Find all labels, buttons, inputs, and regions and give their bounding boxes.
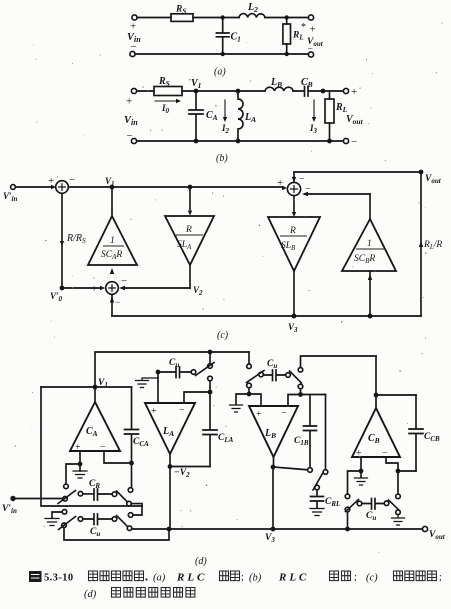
switch contact sc1 lower <box>208 376 213 381</box>
resistor RL vertical (a) <box>286 18 288 55</box>
wire V2 corner from triangle2 apex <box>189 265 191 288</box>
switch pole CRL <box>315 485 320 490</box>
switch contact sc2 lower-left <box>247 383 252 388</box>
terminal output top (a) <box>308 15 313 20</box>
switch pole sc2 left <box>259 372 264 377</box>
svg-text:;: ; <box>354 572 357 583</box>
svg-text:R: R <box>289 226 296 236</box>
svg-text:−: − <box>308 44 314 55</box>
svg-text:(b): (b) <box>216 153 228 164</box>
wire bottom rail a <box>135 53 309 55</box>
wire V'in to summer1 <box>16 186 53 188</box>
svg-text:(a): (a) <box>153 573 166 584</box>
op-amp LB <box>249 406 298 457</box>
op-amp CB <box>352 408 400 457</box>
svg-text:+: + <box>75 442 81 453</box>
node bottom RL (a) <box>285 52 289 56</box>
caption cjk signal flow graph <box>394 571 403 581</box>
switch contact sc4 upper-left <box>345 494 350 499</box>
svg-text:+: + <box>277 177 283 189</box>
resistor Rs (b) <box>154 87 182 96</box>
capacitor Cu top-left <box>158 367 191 378</box>
wire LB minus bar <box>288 395 326 407</box>
switch contact sc4 lower-right <box>396 510 401 515</box>
node -V2 <box>168 464 173 469</box>
switch arm row1 left <box>58 491 76 504</box>
switch arm sc2 right <box>290 371 302 383</box>
wire V1 rail <box>68 186 283 188</box>
terminal output bottom (a) <box>308 52 313 57</box>
svg-text:+: + <box>356 448 362 459</box>
svg-text:1: 1 <box>110 236 115 246</box>
arrow V3 into block4 <box>369 271 371 316</box>
switch contact row1 cap-left <box>78 491 83 496</box>
op-amp block R/SLA <box>165 216 214 265</box>
wire sc2 lower-right down <box>300 389 302 395</box>
caption fig-number block glyph <box>29 571 42 582</box>
switch contact upper row1 left <box>64 484 69 489</box>
svg-text:(c): (c) <box>366 573 378 584</box>
switch arm sc4 left <box>346 500 359 512</box>
svg-text:;: ; <box>439 572 442 583</box>
ground CB plus <box>355 478 368 485</box>
wire V1 feedback top rail <box>95 352 249 387</box>
svg-text:R: R <box>185 225 192 235</box>
wire sc2 upper-right to CB rail <box>301 356 377 368</box>
summing node S3 <box>287 182 300 195</box>
node block4 bottom <box>368 314 373 319</box>
ground LA left <box>136 381 149 388</box>
switch contact sc2 upper-right <box>298 368 303 373</box>
wire V2 into summer2 <box>124 287 190 289</box>
wire S3 down into block3 <box>293 196 295 214</box>
svg-text:(d): (d) <box>195 556 207 567</box>
wire summer1 down R/Rs <box>61 193 63 286</box>
svg-text:+: + <box>256 409 262 420</box>
wire CA plus input down <box>79 451 81 471</box>
switch arm row2 left <box>59 517 76 530</box>
wire CCA node down to row1 contact <box>131 463 133 488</box>
wire CB plus to switch contact <box>348 471 362 494</box>
node LA top <box>236 89 241 94</box>
svg-text:+: + <box>126 96 132 108</box>
wire CA output to V1 <box>94 387 96 402</box>
switch pole row1 lower right <box>127 501 132 506</box>
switch arm sc4 right <box>389 500 400 511</box>
switch pole row1 left <box>63 497 68 502</box>
svg-text:−: − <box>127 130 133 142</box>
arrow I2 <box>224 100 226 119</box>
op-amp CA <box>70 402 120 451</box>
terminal Vout (d) <box>422 526 427 531</box>
capacitor CRL <box>311 490 324 508</box>
wire sc2 lower-left down <box>248 388 250 394</box>
switch arm CRL <box>313 474 323 491</box>
switch contact sc1 upper <box>208 364 213 369</box>
terminal V'in (d) <box>10 496 15 501</box>
svg-text:+: + <box>130 21 136 33</box>
svg-text:+: + <box>151 406 157 417</box>
node rail sc4 <box>345 527 350 532</box>
svg-text:+: + <box>91 283 97 295</box>
node top-middle (a) <box>221 15 225 19</box>
wire CB plus down <box>360 457 362 477</box>
node sc1 lower junction <box>208 390 213 395</box>
wire LA plus feed <box>157 372 159 403</box>
switch pole sc1 <box>191 370 196 375</box>
wire summer2 below to V3 rail <box>111 294 113 316</box>
switch contact row2 cap-right <box>112 517 117 522</box>
summing node S1 <box>56 181 69 194</box>
node RL top (b) <box>321 89 326 94</box>
caption cjk switched-capacitor filter <box>112 588 121 598</box>
svg-text:−: − <box>382 448 388 459</box>
arrow into block1 base <box>110 268 114 274</box>
node CCA bottom <box>129 461 134 466</box>
svg-text:*: * <box>301 22 306 33</box>
ground hook LA plus <box>142 378 158 380</box>
op-amp block 1/SCBR <box>342 219 396 271</box>
svg-text:−: − <box>115 297 120 307</box>
op-amp block R/SLB <box>268 217 320 271</box>
svg-text:5.3-10: 5.3-10 <box>44 573 74 584</box>
wire LA output apex down <box>169 454 171 467</box>
caption cjk band-pass2 <box>330 571 339 581</box>
wire row2 pole down to rail B <box>64 528 169 540</box>
node CA bottom <box>194 139 199 144</box>
wire V3 bottom rail (c) <box>112 315 421 317</box>
node V1 (b) <box>194 89 199 94</box>
node CB plus <box>359 469 364 474</box>
svg-text:RLC: RLC <box>176 572 207 584</box>
node top-right (a) <box>285 15 289 19</box>
wire CCB bottom to CB minus node <box>398 470 416 472</box>
inductor L2 <box>239 14 265 18</box>
switch contact sc4 upper-right <box>396 494 401 499</box>
wire right vertical RL/R <box>420 172 422 316</box>
svg-text:+: + <box>310 24 316 36</box>
node top rail switch tap <box>208 350 213 355</box>
capacitor C1B <box>304 395 317 468</box>
node bottom C1 (a) <box>221 52 225 56</box>
wire junction to LA minus <box>184 392 210 403</box>
wire top rail a <box>137 17 309 19</box>
node CA plus <box>78 462 83 467</box>
svg-text:+: + <box>48 175 54 187</box>
wire apex1 to V1 <box>111 187 113 216</box>
switch arm sc2 left <box>247 371 265 383</box>
wire -V2 to CLA <box>170 466 210 468</box>
terminal input top (b) <box>131 88 136 93</box>
wire block4 output into S3 <box>306 193 370 195</box>
capacitor C1 <box>216 18 229 55</box>
inductor LB <box>265 87 293 91</box>
node branch to R/SLA <box>188 185 193 190</box>
node LB minus bar tap <box>298 392 303 397</box>
arrow rail into block2 <box>189 187 191 212</box>
capacitor Cu row2 <box>83 514 112 525</box>
svg-text:−: − <box>131 41 137 53</box>
svg-text:−: − <box>281 408 287 419</box>
wire CB minus down <box>386 457 398 494</box>
svg-text:−: − <box>179 405 185 416</box>
resistor RL vertical (b) <box>329 91 331 141</box>
svg-text:−: − <box>69 174 75 186</box>
switch contact row1 cap-right <box>112 492 117 497</box>
switch contact upper row2 right <box>128 513 133 518</box>
node V3 rail <box>271 527 276 532</box>
ground LB plus <box>230 405 243 412</box>
wire V3 output rail <box>132 528 423 530</box>
switch contact row2 ground side <box>62 510 67 515</box>
switch arm row1 right <box>117 491 128 502</box>
node V1 (d) <box>93 385 98 390</box>
capacitor Cu middle <box>263 370 285 381</box>
wire left tall vertical V1 down <box>41 387 142 506</box>
inductor LA vertical <box>238 91 243 141</box>
ground CRL <box>310 509 324 516</box>
node sc2 lower-left tap <box>247 392 252 397</box>
arrow I0 <box>155 100 178 102</box>
svg-text:+: + <box>351 86 357 98</box>
op-amp block 1/SCAR <box>88 216 137 265</box>
node V3 under LB <box>271 465 276 470</box>
wire V'in row1 <box>15 498 62 500</box>
capacitor CA (b) <box>189 91 203 141</box>
wire LB output to switch <box>273 467 308 470</box>
svg-text:−: − <box>305 184 311 195</box>
wire Vout feedback top rail (c) <box>293 172 295 181</box>
wire CB output to CCB <box>376 394 416 396</box>
terminal output bottom (b) <box>343 138 348 143</box>
terminal input bottom (a) <box>130 51 135 56</box>
capacitor CLA <box>203 392 217 467</box>
node Vout corner (c) <box>419 170 424 175</box>
capacitor Cu right <box>362 499 384 510</box>
wire LB apex down <box>273 457 275 467</box>
wire block3 apex to V3 <box>293 271 295 316</box>
switch contact sc4 lower-left <box>345 507 350 512</box>
svg-text:;: ; <box>241 572 244 583</box>
switch contact LB out right <box>323 470 328 475</box>
svg-text:1: 1 <box>367 239 372 249</box>
switch contact LB out left <box>308 468 313 473</box>
node V3 <box>292 314 297 319</box>
resistor Rs (a) <box>171 14 193 22</box>
node Cu left junction <box>156 370 161 375</box>
switch pole sc4 left <box>357 501 362 506</box>
switch contact upper row1 right <box>128 488 133 493</box>
caption cjk low-pass <box>220 571 229 581</box>
terminal output top (b) <box>343 88 348 93</box>
wire CA plus stub to switch contact <box>66 464 80 484</box>
wire apex4 up <box>369 194 371 219</box>
wire sc4 lower-left to rail <box>347 512 349 529</box>
wire far vertical to switch <box>325 395 327 470</box>
wire V1 horizontal rail <box>41 386 132 388</box>
terminal input bottom (b) <box>131 138 136 143</box>
caption cjk run: band-pass filter <box>89 571 98 581</box>
wire -V2 vertical <box>169 467 171 530</box>
svg-text:(d): (d) <box>84 589 97 600</box>
switch pole sc4 right <box>384 501 389 506</box>
node CB minus feedback <box>396 469 401 474</box>
node V1 (c) <box>110 185 115 190</box>
op-amp LA <box>145 403 195 454</box>
svg-text:SCBR: SCBR <box>354 254 375 265</box>
wire CA minus input down <box>104 451 130 463</box>
switch contact sc2 upper-left <box>247 364 252 369</box>
wire LB plus bar <box>236 394 261 406</box>
node CB output <box>374 393 379 398</box>
wire bottom rail b <box>137 140 343 142</box>
svg-text:RLC: RLC <box>278 572 309 584</box>
capacitor CR row1 <box>83 489 112 500</box>
svg-text:(c): (c) <box>217 330 229 341</box>
node LA bottom <box>236 139 241 144</box>
svg-text:−: − <box>351 136 357 148</box>
capacitor CCB <box>409 395 423 471</box>
terminal input top (a) <box>132 15 137 20</box>
node RL bottom (b) <box>327 139 332 144</box>
node rail junction -V2 <box>167 527 172 532</box>
svg-text:(b): (b) <box>249 573 262 584</box>
capacitor CCA <box>125 387 139 463</box>
svg-text:−: − <box>100 442 106 453</box>
switch arm sc1 <box>196 363 215 376</box>
svg-text:−: − <box>121 275 127 287</box>
switch pole sc2 right <box>286 373 291 378</box>
wire top rail b <box>137 90 343 92</box>
capacitor CB (b) <box>305 87 309 97</box>
wire rail2 right corner to sc2 <box>248 352 250 364</box>
wire sc1 lower down <box>209 381 211 392</box>
ground below CA plus <box>73 471 87 478</box>
ground sc4 lower-right <box>397 515 399 518</box>
wire V'0 to summer2 <box>62 287 101 289</box>
switch contact row2 cap-left <box>78 517 83 522</box>
wire to ground row2 left <box>52 512 62 518</box>
switch pole row2 left <box>62 523 67 528</box>
arrow I3 <box>313 100 315 119</box>
terminal V'in (c) <box>11 185 16 190</box>
svg-text:SCAR: SCAR <box>101 250 122 261</box>
wire CB apex up <box>375 356 377 408</box>
wire LB output down to rail <box>272 467 274 529</box>
node V'0 <box>60 286 65 291</box>
ground row2 left <box>45 519 59 526</box>
switch arm row2 right <box>117 516 128 527</box>
wire row1 U-turn to row2 contact <box>131 504 142 515</box>
switch contact sc2 lower-right <box>298 384 303 389</box>
wire rail tap to sc1 upper contact <box>209 352 211 364</box>
svg-text:(a): (a) <box>214 67 226 78</box>
summing node S2 <box>106 282 119 295</box>
switch pole row2 right <box>127 526 132 531</box>
